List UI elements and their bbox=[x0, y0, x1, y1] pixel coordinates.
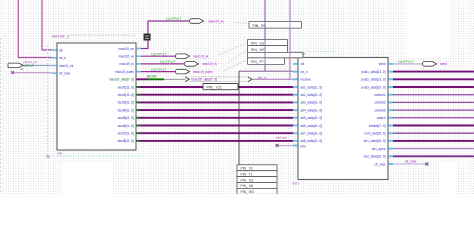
pin stack box V1 bbox=[237, 165, 277, 171]
svg-text:OUTPUT: OUTPUT bbox=[151, 68, 167, 72]
svg-text:num_dat[15..0]: num_dat[15..0] bbox=[365, 132, 386, 136]
bus dout7-ad7 bbox=[136, 132, 293, 134]
selection dashes under left block bbox=[45, 155, 143, 157]
svg-text:receive: receive bbox=[301, 78, 311, 82]
dashed connector rs to PIN box bbox=[228, 50, 247, 63]
pin box U3 bbox=[248, 39, 288, 45]
svg-text:OUTPUT: OUTPUT bbox=[398, 60, 414, 64]
svg-text:OUTPUT: OUTPUT bbox=[160, 60, 176, 64]
svg-text:max10f_oe: max10f_oe bbox=[208, 19, 224, 23]
output pin max10f_rs bbox=[160, 60, 217, 66]
svg-text:PIN_ P7: PIN_ P7 bbox=[251, 60, 264, 64]
svg-text:INPUT: INPUT bbox=[24, 64, 35, 68]
wire max10f_oe route to output pin bbox=[136, 21, 189, 49]
output pin max10f_oe bbox=[166, 17, 224, 23]
stubs left block left ports bbox=[52, 50, 57, 73]
svg-text:twinkle[7..0]: twinkle[7..0] bbox=[369, 124, 386, 128]
svg-text:uart_rx: uart_rx bbox=[257, 75, 267, 79]
pin stack box U3b bbox=[237, 177, 277, 183]
bus dout2-ad2 bbox=[136, 94, 293, 96]
bus dout3-ad3 bbox=[136, 101, 293, 103]
svg-text:PIN_ W7: PIN_ W7 bbox=[251, 48, 265, 52]
pin box W7 bbox=[248, 46, 288, 53]
bus dout6-ad6 bbox=[136, 125, 293, 127]
wire control3 bbox=[393, 109, 474, 111]
output pin max10_lcden bbox=[151, 68, 213, 74]
wire receive vertical from top bbox=[289, 0, 291, 79]
svg-text:ad5_data[11..0]: ad5_data[11..0] bbox=[301, 116, 323, 120]
wire uart rx lavender into receive bbox=[252, 78, 293, 80]
wire rst-net of right block bbox=[239, 0, 293, 71]
wire send to output pin bbox=[393, 63, 422, 65]
selection handle left block bbox=[47, 155, 50, 158]
svg-text:max10f_wr: max10f_wr bbox=[193, 55, 210, 59]
svg-text:de1_spee: de1_spee bbox=[372, 147, 386, 151]
svg-text:BIDIR: BIDIR bbox=[147, 75, 157, 79]
selection dashes left of left block bbox=[46, 45, 48, 156]
bidir thin lead bbox=[164, 78, 186, 80]
svg-text:dout5[11..0]: dout5[11..0] bbox=[118, 116, 134, 120]
svg-text:rst_n: rst_n bbox=[59, 56, 66, 60]
svg-text:ad1_data[11..0]: ad1_data[11..0] bbox=[301, 85, 323, 89]
svg-text:max10f lcd ctrl module param l: max10f lcd ctrl module param list value … bbox=[70, 33, 136, 37]
bus puls1_data bbox=[393, 71, 474, 73]
pin stack box U6 bbox=[237, 183, 277, 189]
svg-text:ad7_data[11..0]: ad7_data[11..0] bbox=[301, 132, 323, 136]
bus dout8-ad8 bbox=[136, 140, 293, 142]
svg-text:PIN_ U3: PIN_ U3 bbox=[251, 41, 264, 45]
pin stack box T1 bbox=[237, 171, 277, 177]
dashed connector lcden to PIN box bbox=[224, 60, 247, 71]
svg-text:ctr_max: ctr_max bbox=[59, 72, 71, 76]
svg-text:dout4[11..0]: dout4[11..0] bbox=[118, 108, 134, 112]
svg-text:max10f_rs: max10f_rs bbox=[202, 62, 217, 66]
svg-text:ctr_max: ctr_max bbox=[405, 160, 417, 164]
svg-text:de1_data[15..0]: de1_data[15..0] bbox=[364, 139, 386, 143]
wire max7s_int net from input pin bbox=[22, 64, 52, 66]
bus de1_data bbox=[393, 140, 474, 142]
stubs right block left ports bbox=[293, 64, 298, 146]
svg-text:refs: refs bbox=[301, 144, 307, 148]
bus puls3_data bbox=[393, 86, 474, 88]
bus de2_data bbox=[393, 155, 474, 157]
wire rst_n-net vertical from top bbox=[18, 0, 52, 58]
wire de1_spee bbox=[393, 148, 474, 150]
svg-text:max10f_wr: max10f_wr bbox=[119, 55, 134, 59]
svg-text:puls2_data[13..0]: puls2_data[13..0] bbox=[361, 78, 385, 82]
bus dout5-ad5 bbox=[136, 117, 293, 119]
svg-text:MAX10F_2: MAX10F_2 bbox=[52, 35, 69, 39]
bidir bus max10f_data stub bbox=[136, 78, 148, 80]
svg-text:OUTPUT: OUTPUT bbox=[166, 17, 182, 21]
wire refs dangling bbox=[277, 145, 293, 147]
wire clk-net vertical from top bbox=[42, 0, 52, 50]
wire max10f_rs bbox=[136, 63, 184, 65]
input pin max7s_int bbox=[8, 60, 37, 68]
svg-text:dout6[11..0]: dout6[11..0] bbox=[118, 124, 134, 128]
svg-text:clk: clk bbox=[301, 62, 305, 66]
svg-text:ad3_data[11..0]: ad3_data[11..0] bbox=[301, 101, 323, 105]
bidir chevron bbox=[185, 77, 189, 82]
svg-text:dout3[11..0]: dout3[11..0] bbox=[118, 101, 134, 105]
svg-text:max10f_data[7..0]: max10f_data[7..0] bbox=[192, 78, 218, 82]
stubs left block right ports bbox=[136, 49, 141, 72]
svg-text:max7s_int: max7s_int bbox=[59, 64, 73, 68]
bus twinkle bbox=[393, 125, 474, 127]
svg-text:send: send bbox=[440, 62, 447, 66]
svg-text:ad6_data[11..0]: ad6_data[11..0] bbox=[301, 124, 323, 128]
bus dout1-ad1 bbox=[136, 86, 293, 88]
sheet border dashes far left bbox=[0, 38, 2, 194]
bus puls2_data bbox=[393, 78, 474, 80]
svg-text:max10f_data[7..0]: max10f_data[7..0] bbox=[109, 78, 134, 82]
dangling-x ctr_max bbox=[11, 71, 14, 74]
dangling-x ctr_max right bbox=[425, 163, 428, 166]
svg-text:ad2_data[11..0]: ad2_data[11..0] bbox=[301, 93, 323, 97]
wire num_data bbox=[393, 132, 474, 134]
wire ctr_max dangling right bbox=[393, 163, 427, 165]
pin box empty bbox=[248, 52, 304, 57]
svg-text:control3: control3 bbox=[374, 108, 385, 112]
blank area bottom-left bbox=[62, 163, 112, 194]
svg-text:max10_lcden: max10_lcden bbox=[115, 70, 134, 74]
svg-text:OUTPUT: OUTPUT bbox=[151, 52, 167, 56]
svg-text:rst_n: rst_n bbox=[301, 70, 308, 74]
svg-text:ctr_max: ctr_max bbox=[374, 162, 386, 166]
bidir bus green segment bbox=[148, 78, 164, 80]
svg-text:max10f_lcden: max10f_lcden bbox=[193, 70, 213, 74]
svg-text:dout2[11..0]: dout2[11..0] bbox=[118, 93, 134, 97]
bidir symbol body edges bbox=[190, 77, 249, 82]
pin box wide top bbox=[249, 22, 302, 29]
dangling-x refs bbox=[276, 144, 279, 147]
svg-text:ad8_dat: ad8_dat bbox=[276, 136, 287, 140]
pin box Y21 bbox=[203, 84, 238, 90]
svg-text:de2_data[15..0]: de2_data[15..0] bbox=[364, 155, 386, 159]
svg-text:ad4_data[11..0]: ad4_data[11..0] bbox=[301, 108, 323, 112]
svg-text:PIN_ W3: PIN_ W3 bbox=[241, 190, 254, 194]
output pin max10f_wr bbox=[151, 52, 210, 58]
svg-text:dout8[11..0]: dout8[11..0] bbox=[118, 139, 134, 143]
wire switch bbox=[393, 117, 474, 119]
stubs right block right ports bbox=[388, 64, 393, 164]
svg-text:clk: clk bbox=[59, 48, 63, 52]
bidir right point bbox=[248, 77, 252, 82]
svg-text:control2: control2 bbox=[374, 101, 385, 105]
pin stack box W3 bbox=[237, 188, 277, 194]
wire control2 bbox=[393, 101, 474, 103]
svg-text:dout1[11..0]: dout1[11..0] bbox=[118, 85, 134, 89]
svg-text:inst1: inst1 bbox=[292, 182, 299, 186]
pin box P7 bbox=[248, 58, 285, 65]
svg-text:ad8_data[11..0]: ad8_data[11..0] bbox=[301, 139, 323, 143]
svg-text:dout7[11..0]: dout7[11..0] bbox=[118, 132, 134, 136]
svg-text:PIN_ U3: PIN_ U3 bbox=[241, 178, 254, 182]
wire overlay rst vertical bbox=[264, 0, 266, 71]
wire ctr_max net dangling left bbox=[12, 72, 52, 74]
svg-text:inst: inst bbox=[57, 152, 62, 156]
svg-text:PIN_ Y21: PIN_ Y21 bbox=[207, 86, 222, 90]
svg-text:puls3_data[13..0]: puls3_data[13..0] bbox=[361, 85, 385, 89]
blank area top-right bbox=[408, 0, 450, 58]
svg-text:PIN_ V1: PIN_ V1 bbox=[241, 167, 253, 171]
block U1 max10f controller bbox=[52, 33, 151, 156]
wire control1 bbox=[393, 94, 474, 96]
svg-text:puls1_data[13..0]: puls1_data[13..0] bbox=[361, 70, 385, 74]
dashed connector wr to PIN box bbox=[219, 43, 247, 55]
svg-text:max10f_rs: max10f_rs bbox=[119, 62, 134, 66]
svg-text:PIN_ R9: PIN_ R9 bbox=[253, 24, 266, 28]
svg-text:max10f_oe: max10f_oe bbox=[118, 47, 134, 51]
output pin send bbox=[398, 60, 447, 66]
svg-text:switch: switch bbox=[377, 116, 386, 120]
svg-text:control1: control1 bbox=[374, 93, 385, 97]
bus dout4-ad4 bbox=[136, 109, 293, 111]
svg-text:send: send bbox=[379, 62, 386, 66]
dashed connector oe to PIN box bbox=[234, 22, 248, 24]
selection dashes near right block top bbox=[291, 51, 335, 53]
wire max10f_wr bbox=[136, 55, 175, 57]
svg-text:PIN_ U6: PIN_ U6 bbox=[241, 184, 254, 188]
wire max10_lcden bbox=[136, 71, 175, 73]
svg-text:PIN_ T1: PIN_ T1 bbox=[241, 172, 253, 176]
wire overlay receive vertical bbox=[289, 0, 291, 79]
block U2 uart controller bbox=[292, 52, 388, 186]
blank area bottom-right bbox=[440, 162, 456, 194]
thin connector vertical to bottom pin stack bbox=[238, 71, 240, 165]
